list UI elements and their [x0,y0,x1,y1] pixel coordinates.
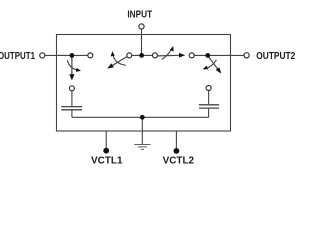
svg-text:VCTL2: VCTL2 [163,156,195,167]
svg-text:INPUT: INPUT [127,9,152,20]
svg-text:OUTPUT2: OUTPUT2 [256,51,295,62]
svg-text:VCTL1: VCTL1 [91,156,123,167]
svg-text:OUTPUT1: OUTPUT1 [0,51,35,62]
